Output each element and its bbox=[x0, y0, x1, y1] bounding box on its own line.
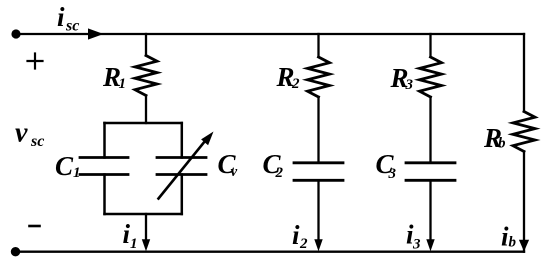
terminal dot bottom-left bbox=[11, 247, 20, 256]
label i1 bbox=[123, 219, 138, 252]
svg-text:v: v bbox=[231, 164, 238, 180]
wire branch2 top bbox=[317, 34, 319, 56]
wire box left lower bbox=[103, 175, 106, 215]
svg-text:C: C bbox=[55, 151, 74, 181]
plus sign bbox=[28, 54, 43, 69]
minus sign bbox=[30, 225, 40, 228]
wire C2 to bottom bbox=[317, 180, 319, 244]
label C3 bbox=[376, 149, 397, 182]
wire top bbox=[16, 33, 524, 35]
label R3 bbox=[390, 63, 414, 93]
terminal dot top-left bbox=[11, 29, 20, 38]
svg-text:3: 3 bbox=[388, 166, 397, 182]
current arrowhead i2 bbox=[314, 239, 322, 251]
label ib bbox=[501, 222, 517, 252]
capacitor C2 bbox=[294, 163, 343, 181]
wire branch3 top bbox=[429, 34, 431, 56]
resistor R3 bbox=[420, 57, 442, 97]
variable-capacitor arrow Cv bbox=[159, 132, 214, 199]
svg-text:v: v bbox=[15, 118, 28, 149]
label i2 bbox=[292, 220, 308, 252]
wire bottom bbox=[16, 251, 524, 253]
wire box bottom bar bbox=[105, 213, 182, 216]
capacitor C1 bbox=[80, 158, 128, 175]
wire box right lower bbox=[181, 175, 184, 215]
svg-text:i: i bbox=[292, 220, 300, 250]
wire R1 to box bbox=[145, 96, 147, 124]
svg-text:3: 3 bbox=[412, 237, 421, 253]
wire C3 to bottom bbox=[429, 180, 431, 244]
wire branch1 top bbox=[145, 34, 147, 56]
svg-text:b: b bbox=[509, 235, 517, 251]
label R1 bbox=[102, 62, 126, 92]
svg-text:sc: sc bbox=[30, 133, 44, 150]
svg-text:sc: sc bbox=[65, 18, 79, 35]
svg-text:i: i bbox=[57, 2, 65, 32]
svg-text:1: 1 bbox=[73, 165, 81, 181]
resistor R2 bbox=[308, 57, 330, 97]
wire R3 to C3 bbox=[429, 97, 431, 163]
capacitor Cv variable bbox=[157, 158, 206, 175]
svg-text:2: 2 bbox=[299, 236, 308, 252]
label C1 bbox=[55, 151, 81, 181]
current arrowhead i1 bbox=[142, 239, 150, 251]
svg-text:3: 3 bbox=[405, 77, 414, 93]
label C2 bbox=[263, 149, 284, 181]
wire box left upper bbox=[103, 123, 106, 158]
label v_sc bbox=[15, 118, 44, 151]
svg-text:2: 2 bbox=[291, 76, 300, 92]
label i3 bbox=[406, 220, 421, 253]
resistor R1 bbox=[135, 56, 157, 96]
current arrow i_sc bbox=[88, 28, 104, 39]
label R2 bbox=[276, 62, 301, 92]
label i_sc bbox=[57, 2, 79, 35]
capacitor C3 bbox=[406, 163, 455, 181]
svg-text:1: 1 bbox=[130, 236, 138, 252]
wire branch1 bottom bbox=[145, 214, 147, 244]
svg-text:2: 2 bbox=[275, 165, 284, 181]
wire box top bar bbox=[105, 122, 182, 125]
label Cv bbox=[218, 149, 238, 180]
current arrowhead i3 bbox=[426, 239, 434, 251]
wire right branch lower bbox=[523, 152, 525, 252]
resistor Rb bbox=[513, 112, 535, 152]
wire right branch upper bbox=[523, 34, 525, 112]
wire box right upper bbox=[181, 123, 184, 158]
label Rb bbox=[483, 123, 506, 153]
svg-text:1: 1 bbox=[119, 76, 127, 92]
wire R2 to C2 bbox=[317, 97, 319, 163]
svg-text:b: b bbox=[498, 136, 506, 152]
current arrowhead ib bbox=[519, 240, 529, 252]
